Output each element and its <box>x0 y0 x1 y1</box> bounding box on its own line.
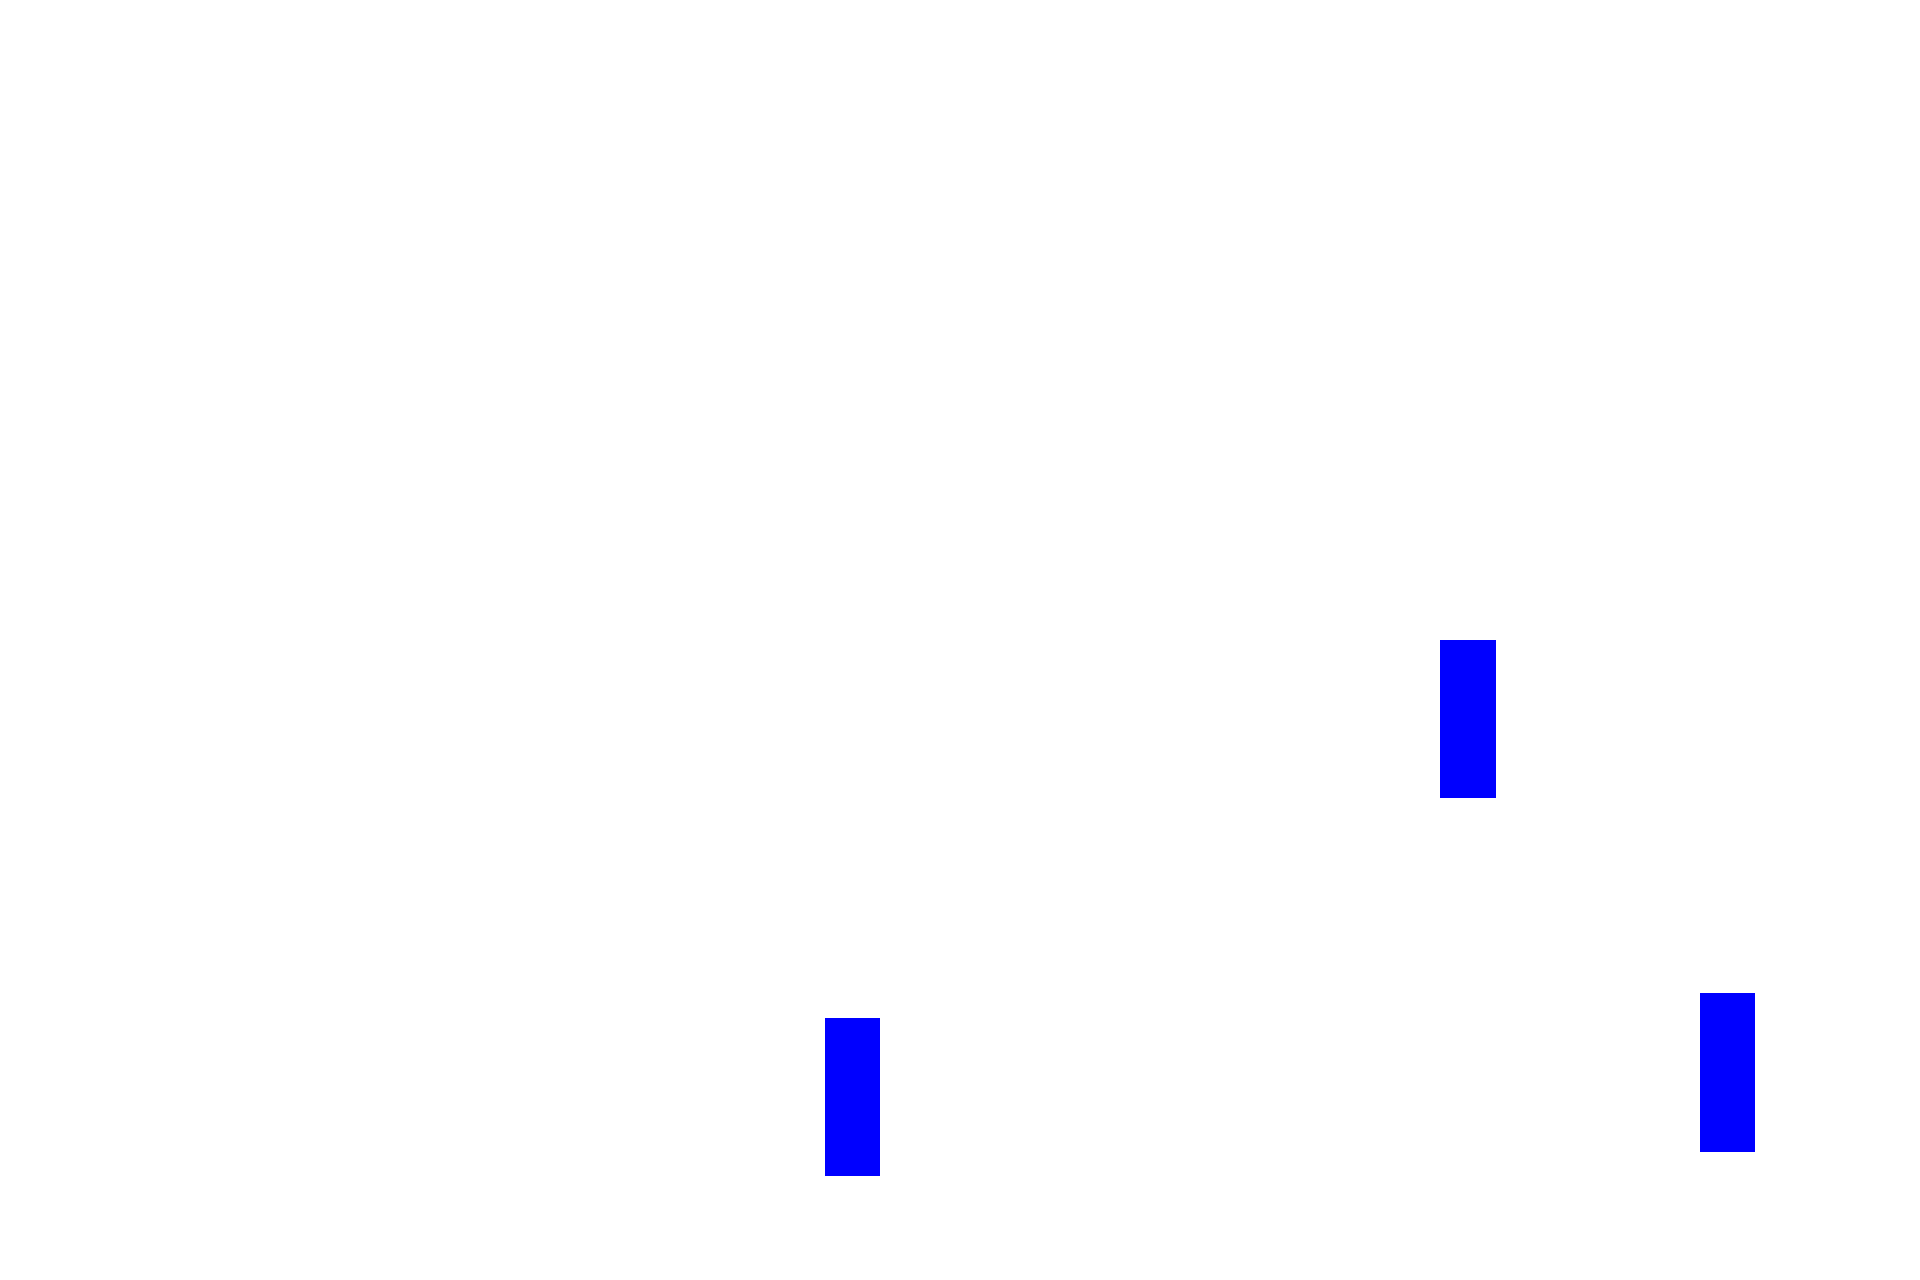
blue block 2 <box>825 1018 880 1176</box>
blue block 1 <box>1440 640 1496 798</box>
blue block 3 <box>1700 993 1755 1152</box>
